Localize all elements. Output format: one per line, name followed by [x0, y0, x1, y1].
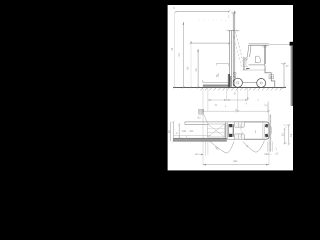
svg-text:Ast: Ast [233, 159, 237, 163]
mast top dimension grips [227, 30, 240, 32]
svg-text:h10: h10 [263, 46, 268, 49]
rear body inner verticals [263, 122, 265, 139]
fork tip tick [202, 80, 204, 82]
carriage plates verticals [226, 123, 229, 139]
dimension line h3 lift height (vertical V2) [182, 22, 184, 88]
top dimension line H1 [176, 10, 230, 12]
mast outer channel [230, 31, 232, 87]
front wheel top (plan) [235, 122, 245, 127]
extension lines small [208, 88, 269, 122]
engine mark center [255, 130, 257, 133]
small dims right of envelope [268, 142, 273, 152]
overhead guard front post (slanted) [247, 45, 251, 57]
dimension line h4 overall height (vertical V1) [174, 13, 176, 88]
front wheel bottom (plan) [235, 134, 245, 139]
plan width dimensions right side [285, 125, 289, 144]
body hood deck line [249, 64, 265, 66]
fork upper line [203, 81, 228, 83]
carriage dark bars [228, 74, 231, 87]
seat [255, 56, 260, 63]
extension line fork tip [202, 88, 204, 165]
fork spread dimension verticals (left) [170, 122, 172, 141]
tilt angle dimension above body [216, 63, 228, 65]
overhead guard roof line [249, 44, 269, 46]
overall length dimension line l1 [203, 110, 269, 112]
wheelbase dimension row [208, 99, 248, 101]
dashed max-fork-height line [199, 19, 236, 21]
upper fork bar (plan) [185, 122, 234, 125]
svg-text:h3: h3 [177, 53, 181, 57]
white drawing panel [168, 5, 293, 170]
arrow above mast (height extension) [234, 11, 236, 14]
extension line front axle [237, 88, 239, 111]
front wheel [233, 78, 242, 87]
steering arcs mid-body [240, 125, 243, 137]
svg-text:m: m [265, 104, 267, 107]
steering envelope left V [210, 142, 234, 154]
rear wheel [257, 79, 266, 88]
thin extension line to right wall [269, 44, 290, 46]
rear wheels (plan, dark) [265, 124, 268, 128]
soft scan shadow on right edge [290, 46, 293, 106]
lower fork bar (plan) [173, 138, 227, 141]
chassis underside between wheels [243, 81, 257, 83]
steering envelope right V [243, 141, 265, 153]
mast inner channel [233, 14, 235, 87]
dimension line H2 (at y 43.1) [191, 42, 229, 44]
carriage X-brace (plan) [207, 124, 224, 137]
black block at right edge [290, 42, 294, 46]
dashed tilted mast line [235, 31, 244, 64]
seat height dimension (right side) [283, 64, 285, 88]
mast top caps [229, 14, 235, 31]
svg-text:b10: b10 [182, 130, 187, 133]
plan body outline [234, 122, 269, 139]
leader line from box [204, 114, 209, 124]
ground hatching [201, 88, 283, 91]
body front edge [242, 57, 244, 70]
svg-text:h4: h4 [170, 47, 174, 51]
ground line [173, 86, 286, 88]
overhead guard rear post [264, 45, 265, 65]
rear body / counterweight outline [265, 65, 275, 87]
steering wheel and column [244, 57, 248, 61]
rear axle centerline band [269, 115, 271, 152]
svg-text:h6: h6 [194, 68, 198, 72]
svg-text:b13: b13 [265, 153, 270, 156]
body lower side [243, 69, 266, 71]
mast rollers small circles [234, 72, 236, 74]
inner dimension line across forks [173, 135, 211, 137]
fork blade [203, 85, 229, 87]
tow pin [269, 75, 273, 79]
hatched fork-section box [199, 109, 204, 114]
Ast aisle width dimension (bottom) [203, 164, 269, 166]
dimension line h6 guard height (vertical V3) [197, 49, 199, 87]
svg-text:b11: b11 [190, 130, 194, 133]
mast channel sections (dark, plan) [229, 124, 232, 127]
